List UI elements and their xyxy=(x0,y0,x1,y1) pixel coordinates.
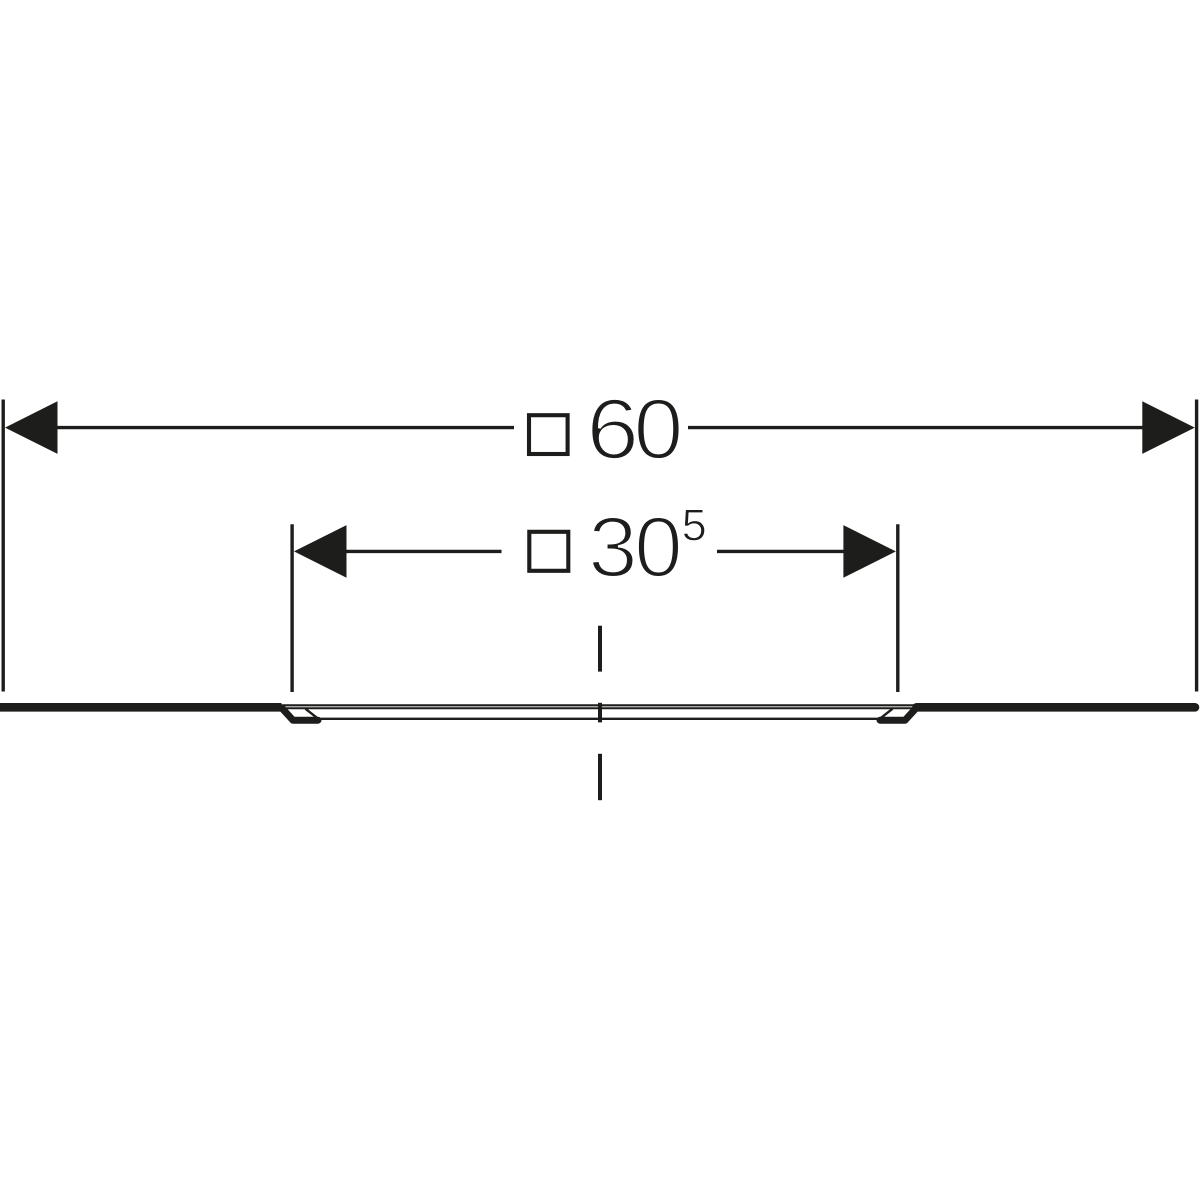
dimension 30.5: digit 3 xyxy=(591,517,633,578)
dimension 30.5: dimension line right segment xyxy=(717,550,847,553)
centerline dash upper xyxy=(598,626,602,672)
dimension 60: digit 6 xyxy=(591,399,635,460)
profile: left thick section bar xyxy=(0,703,282,712)
dimension 60: square symbol xyxy=(529,415,568,454)
profile: right thick section bar xyxy=(917,703,1196,712)
dimension 60: dimension line left segment xyxy=(56,426,514,429)
profile: left break thick stroke xyxy=(282,708,318,720)
dimension 60: digit 0 xyxy=(637,399,680,460)
centerline dash lower xyxy=(598,754,602,800)
dimension 30.5: square symbol xyxy=(529,532,568,571)
centerline dash middle xyxy=(598,703,602,723)
dimension 30.5: dimension line left segment xyxy=(345,550,502,553)
dimension 30.5: superscript digit 5 xyxy=(683,510,704,541)
profile: left break thin diagonal xyxy=(306,709,320,720)
dimension 60: left extension line xyxy=(2,400,5,692)
dimension 30.5: digit 0 xyxy=(638,517,680,578)
dimension 30.5: right extension line xyxy=(896,524,899,692)
profile: bottom thin line xyxy=(321,718,878,720)
dimension 60: right extension line xyxy=(1195,400,1198,692)
profile: right break thick stroke xyxy=(880,708,916,720)
profile: top thin line upper xyxy=(281,704,917,706)
dimension 60: left arrowhead xyxy=(5,401,58,454)
dimension 60: dimension line right segment xyxy=(688,426,1143,429)
dimension 30.5: left extension line xyxy=(290,524,293,692)
dimension 30.5: left arrowhead xyxy=(294,525,347,578)
profile: top thin line lower xyxy=(281,707,917,709)
dimension 30.5: right arrowhead xyxy=(843,525,896,578)
profile: right break thin diagonal xyxy=(879,709,893,720)
dimension 60: right arrowhead xyxy=(1142,401,1195,454)
